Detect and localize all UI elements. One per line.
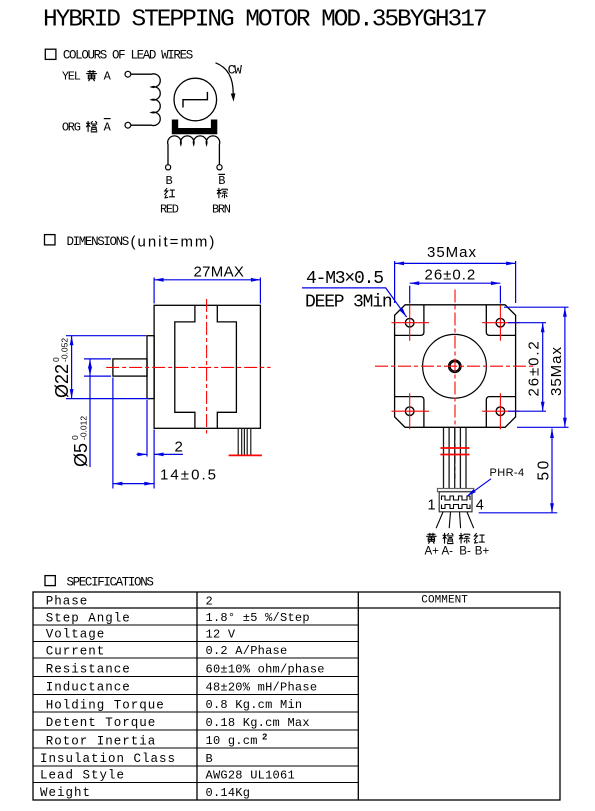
svg-text:COLOURS OF LEAD WIRES: COLOURS OF LEAD WIRES [63,49,193,63]
wire end mark (red) [229,454,262,456]
CJK zong (brown) [217,188,228,198]
dim dia22 dimension line [71,336,73,399]
main centerline horizontal (front view) [375,365,535,367]
svg-text:27MAX: 27MAX [194,263,245,280]
svg-text:-0.052: -0.052 [60,338,70,362]
svg-text:2: 2 [262,733,268,743]
lead wires (front view) [444,428,467,488]
svg-text:DEEP 3Min: DEEP 3Min [305,293,392,313]
dim 26+-0.2 top dimension line [410,282,501,284]
shaft [113,359,147,376]
svg-text:2: 2 [206,594,213,608]
svg-text:1.8° ±5 %/Step: 1.8° ±5 %/Step [206,611,310,625]
winding coil A (phase A) [131,74,160,126]
dim 26+-0.2 top extension lines [409,286,411,304]
svg-text:0.2 A/Phase: 0.2 A/Phase [206,644,288,658]
svg-text:Voltage: Voltage [46,628,106,642]
dim 26+-0.2 right dimension line [542,323,544,412]
svg-text:YEL: YEL [62,70,81,84]
dim dia22 extension lines [66,335,146,337]
svg-text:RED: RED [160,203,179,217]
fan-out wire 2 [449,512,450,528]
svg-text:Inductance: Inductance [46,681,131,695]
svg-text:12 V: 12 V [206,627,236,641]
PHR-4 leader arrow [467,479,491,496]
svg-text:Ø22: Ø22 [52,364,72,398]
svg-text:-0.012: -0.012 [79,416,89,440]
dim 14+-0.5 ext line at shaft end [112,378,114,489]
table row lines [33,625,358,783]
svg-text:26±0.2: 26±0.2 [526,339,543,396]
dim 50 dimension line [551,429,553,513]
CJK hong (wire 4 colour) [474,533,485,543]
svg-text:A+: A+ [425,546,440,558]
motor body outline (front view, chamfered square) [395,305,516,428]
lead wires (side view) [238,428,251,455]
svg-text:BRN: BRN [212,203,231,217]
svg-text:B: B [206,752,213,766]
rotor circle [174,78,217,121]
hole centerlines [392,305,520,429]
corner pad bottom-left [395,397,424,428]
terminal B [166,165,171,170]
body inner contour right C [217,305,236,428]
main centerline vertical (front view) [454,290,456,479]
svg-text:Ø5: Ø5 [71,443,91,467]
svg-text:0.14Kg: 0.14Kg [206,786,251,800]
CJK cheng (orange) [86,121,97,132]
pilot circle [423,334,487,398]
dim 26+-0.2 right extension lines [508,322,546,324]
connector PHR-4 housing [437,488,473,491]
terminal B-bar [217,165,222,170]
dim 27MAX dimension line [154,279,260,281]
centerline vertical (side view) [206,299,208,434]
table labels column [40,595,176,801]
svg-text:COMMENT: COMMENT [421,595,468,607]
shaft outer circle [449,360,461,372]
svg-text:35Max: 35Max [427,244,477,261]
CJK zong (wire 3 colour) [459,533,470,544]
connector crenellation row 1 [442,496,471,500]
mounting hole top-right [496,318,505,327]
dim 14+-0.5 dimension line [113,483,154,485]
svg-text:2: 2 [175,439,183,456]
dim 50 extension line (connector bottom) [479,512,558,514]
stator bracket (thick U) [172,120,218,135]
section checkbox: dimensions [45,235,56,245]
svg-text:48±20% mH/Phase: 48±20% mH/Phase [206,681,318,695]
A-bar overline [104,118,111,120]
svg-text:60±10% ohm/phase: 60±10% ohm/phase [206,663,325,677]
svg-text:Detent Torque: Detent Torque [46,716,157,730]
terminal A [125,71,131,77]
svg-text:0.8 Kg.cm Min: 0.8 Kg.cm Min [206,698,303,712]
dim 35Max top extension lines [394,261,396,303]
section checkbox: colours of lead wires [45,49,56,59]
mounting boss [147,336,154,399]
CJK huang (yellow) [86,70,97,81]
CW rotation arrow [216,63,234,94]
terminal A-bar [125,122,131,128]
corner pad bottom-right [486,397,515,428]
CJK hong (red) [164,188,174,198]
rotor step symbol [183,92,207,108]
dim 35Max top dimension line [395,262,516,264]
svg-text:PHR-4: PHR-4 [490,467,525,479]
CJK huang (wire 1 colour) [426,533,437,544]
corner pad top-left [395,305,424,336]
svg-text:(unit=mm): (unit=mm) [131,234,217,251]
svg-text:Holding Torque: Holding Torque [46,698,165,712]
svg-text:HYBRID STEPPING MOTOR MOD.35BY: HYBRID STEPPING MOTOR MOD.35BYGH317 [43,7,486,34]
fan-out wire 3 [460,512,461,528]
centerline horizontal (side view) [106,366,270,368]
svg-text:B-: B- [459,546,471,558]
svg-text:Step Angle: Step Angle [46,611,131,625]
B-bar overline [218,173,225,175]
thread callout leader [302,288,405,315]
svg-text:A-: A- [442,546,454,558]
CJK cheng (wire 2 colour) [443,533,454,544]
svg-text:10 g.cm: 10 g.cm [206,734,258,748]
mounting hole bottom-left [405,407,414,416]
dim dia5 extension lines [84,358,111,360]
fan-out wire 1 [436,512,443,528]
dim dia5 dimension line (arrows outside) [89,376,91,467]
dim 35Max right dimension line [564,307,566,427]
dim 2 extension lines [146,400,148,457]
svg-text:Lead Style: Lead Style [40,769,125,783]
corner pad top-right [486,305,515,336]
svg-text:Resistance: Resistance [46,663,131,677]
motor body outline (side view) [154,305,260,428]
svg-text:ORG: ORG [62,121,81,135]
body inner contour left C [175,305,195,428]
svg-text:14±0.5: 14±0.5 [160,467,218,484]
svg-text:4: 4 [476,498,484,514]
connector crenellation row 2 [442,505,471,509]
dim 27MAX extension lines [153,278,155,304]
fan-out wire 4 [467,512,474,528]
svg-text:Weight: Weight [40,786,91,800]
section checkbox: specifications [45,576,55,586]
svg-text:Phase: Phase [46,595,89,609]
dim dia5 label (rotated) [70,416,91,467]
table values column [206,594,325,800]
shaft inner circle [450,362,460,372]
svg-text:AWG28 UL1061: AWG28 UL1061 [206,768,295,782]
svg-text:0.18 Kg.cm Max: 0.18 Kg.cm Max [206,716,310,730]
svg-text:50: 50 [536,458,553,480]
svg-text:4-M3×0.5: 4-M3×0.5 [306,269,383,289]
svg-text:Insulation Class: Insulation Class [40,752,176,766]
dim 35Max right extension lines [504,306,569,308]
dim 2 dimension line [137,453,148,455]
svg-text:DIMENSIONS: DIMENSIONS [67,235,129,249]
mounting hole top-left [405,318,414,327]
dim dia22 label (rotated) [51,338,72,398]
mounting hole bottom-right [496,407,505,416]
svg-text:1: 1 [428,498,436,514]
svg-text:B+: B+ [475,546,490,558]
wire band marks (red) [440,447,469,449]
svg-text:26±0.2: 26±0.2 [425,267,477,284]
svg-text:Rotor Inertia: Rotor Inertia [46,734,157,748]
svg-text:Current: Current [46,644,106,658]
svg-text:SPECIFICATIONS: SPECIFICATIONS [67,575,154,589]
winding coil B (phase B) [168,136,220,165]
table frame [33,592,560,800]
svg-text:35Max: 35Max [548,346,565,396]
